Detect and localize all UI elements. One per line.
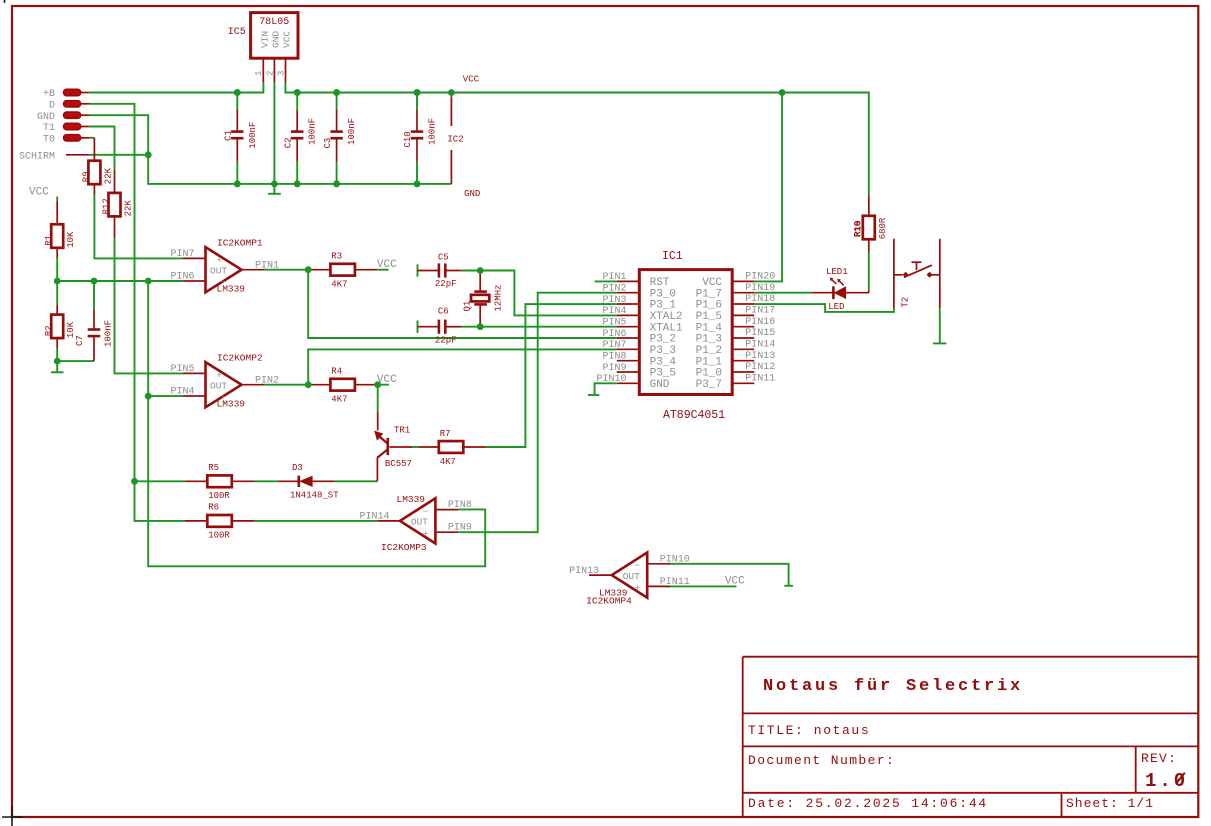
svg-text:PIN11: PIN11 xyxy=(660,577,690,588)
svg-text:PIN13: PIN13 xyxy=(569,566,599,577)
svg-text:P1_1: P1_1 xyxy=(696,356,723,368)
svg-text:XTAL1: XTAL1 xyxy=(650,322,683,334)
svg-text:PIN8: PIN8 xyxy=(448,500,472,511)
svg-text:R5: R5 xyxy=(208,463,219,473)
svg-text:D3: D3 xyxy=(292,463,303,473)
svg-text:PIN10: PIN10 xyxy=(596,374,626,385)
svg-text:4K7: 4K7 xyxy=(331,395,347,405)
svg-text:+: + xyxy=(423,529,428,539)
svg-text:Notaus für Selectrix: Notaus für Selectrix xyxy=(763,677,1023,696)
svg-text:R1: R1 xyxy=(44,235,54,246)
svg-text:LED1: LED1 xyxy=(826,267,848,277)
svg-text:PIN1: PIN1 xyxy=(602,272,626,283)
svg-text:PIN1: PIN1 xyxy=(255,260,279,271)
svg-text:−: − xyxy=(635,561,640,571)
svg-text:P3_7: P3_7 xyxy=(696,379,722,391)
svg-text:VCC: VCC xyxy=(377,259,397,271)
svg-text:C2: C2 xyxy=(283,137,293,148)
svg-text:PIN8: PIN8 xyxy=(602,352,626,363)
svg-text:VCC: VCC xyxy=(725,576,745,588)
svg-text:TITLE: notaus: TITLE: notaus xyxy=(748,723,870,738)
svg-text:P3_3: P3_3 xyxy=(650,345,676,357)
svg-text:RST: RST xyxy=(650,277,670,289)
svg-text:XTAL2: XTAL2 xyxy=(650,311,683,323)
svg-text:R12: R12 xyxy=(102,198,112,214)
svg-text:100nF: 100nF xyxy=(248,122,258,149)
svg-text:LM339: LM339 xyxy=(217,283,246,294)
svg-text:GND: GND xyxy=(37,112,55,123)
svg-text:VCC: VCC xyxy=(463,75,480,85)
svg-text:P3_1: P3_1 xyxy=(650,300,677,312)
svg-text:12MHz: 12MHz xyxy=(493,284,503,311)
svg-text:IC2KOMP4: IC2KOMP4 xyxy=(586,596,632,607)
svg-text:+B: +B xyxy=(43,89,55,100)
svg-text:AT89C4051: AT89C4051 xyxy=(663,409,725,422)
svg-text:100nF: 100nF xyxy=(308,118,318,145)
svg-text:PIN18: PIN18 xyxy=(745,294,775,305)
svg-text:SCHIRM: SCHIRM xyxy=(19,151,55,162)
svg-text:PIN14: PIN14 xyxy=(359,512,389,523)
svg-text:+: + xyxy=(635,584,640,594)
svg-text:LM339: LM339 xyxy=(217,398,246,409)
svg-text:PIN6: PIN6 xyxy=(602,329,626,340)
svg-text:IC5: IC5 xyxy=(228,27,246,38)
svg-text:100nF: 100nF xyxy=(428,118,438,145)
svg-text:PIN6: PIN6 xyxy=(170,272,194,283)
svg-text:R10: R10 xyxy=(853,220,863,236)
svg-text:P1_4: P1_4 xyxy=(696,322,723,334)
svg-text:P1_7: P1_7 xyxy=(696,288,722,300)
svg-text:C1: C1 xyxy=(224,130,234,141)
svg-text:10K: 10K xyxy=(66,321,76,338)
svg-text:P3_0: P3_0 xyxy=(650,288,676,300)
svg-text:BC557: BC557 xyxy=(385,459,412,469)
svg-text:GND: GND xyxy=(650,379,670,391)
svg-text:PIN19: PIN19 xyxy=(745,283,775,294)
svg-text:P1_6: P1_6 xyxy=(696,300,722,312)
svg-text:GND: GND xyxy=(271,31,282,48)
svg-text:IC2KOMP3: IC2KOMP3 xyxy=(381,542,427,553)
svg-text:100nF: 100nF xyxy=(347,118,357,145)
svg-text:T0: T0 xyxy=(43,134,55,145)
svg-text:PIN10: PIN10 xyxy=(660,554,690,565)
svg-text:TR1: TR1 xyxy=(394,426,410,436)
svg-text:IC2KOMP2: IC2KOMP2 xyxy=(217,353,263,364)
svg-text:PIN13: PIN13 xyxy=(745,351,775,362)
svg-text:VCC: VCC xyxy=(29,187,49,199)
svg-text:T2: T2 xyxy=(901,297,911,308)
svg-text:10K: 10K xyxy=(66,231,76,248)
svg-text:PIN15: PIN15 xyxy=(745,328,775,339)
svg-text:PIN11: PIN11 xyxy=(745,374,775,385)
svg-text:VCC: VCC xyxy=(702,277,722,289)
svg-text:100nF: 100nF xyxy=(104,320,114,347)
svg-text:R3: R3 xyxy=(331,252,342,262)
svg-text:P1_0: P1_0 xyxy=(696,368,722,380)
svg-text:C10: C10 xyxy=(403,131,413,147)
svg-text:1.0: 1.0 xyxy=(1145,770,1188,792)
svg-text:PIN17: PIN17 xyxy=(745,306,775,317)
svg-text:PIN4: PIN4 xyxy=(170,387,194,398)
svg-text:PIN5: PIN5 xyxy=(602,318,626,329)
svg-text:+: + xyxy=(217,256,222,266)
svg-text:OUT: OUT xyxy=(623,571,640,582)
svg-text:P1_3: P1_3 xyxy=(696,334,722,346)
svg-text:PIN3: PIN3 xyxy=(602,295,626,306)
svg-text:PIN12: PIN12 xyxy=(745,362,775,373)
svg-text:+: + xyxy=(217,371,222,381)
svg-text:Q1: Q1 xyxy=(462,301,472,312)
svg-text:C3: C3 xyxy=(323,138,333,149)
svg-text:C7: C7 xyxy=(75,335,85,346)
svg-text:Date: 25.02.2025 14:06:44: Date: 25.02.2025 14:06:44 xyxy=(748,796,988,811)
svg-text:R7: R7 xyxy=(440,429,451,439)
svg-text:R6: R6 xyxy=(208,503,219,513)
svg-text:P1_2: P1_2 xyxy=(696,345,722,357)
svg-text:Document Number:: Document Number: xyxy=(748,753,895,768)
svg-text:IC2: IC2 xyxy=(447,135,463,145)
svg-text:100R: 100R xyxy=(208,531,230,541)
svg-text:P3_5: P3_5 xyxy=(650,368,676,380)
svg-text:PIN9: PIN9 xyxy=(602,363,626,374)
svg-text:D: D xyxy=(49,100,55,111)
svg-text:PIN14: PIN14 xyxy=(745,340,775,351)
svg-text:P3_4: P3_4 xyxy=(650,356,677,368)
svg-text:IC1: IC1 xyxy=(662,250,683,263)
svg-text:PIN7: PIN7 xyxy=(170,249,194,260)
svg-text:P1_5: P1_5 xyxy=(696,311,722,323)
svg-text:R9: R9 xyxy=(81,171,91,182)
svg-text:78L05: 78L05 xyxy=(259,17,289,28)
svg-text:LM339: LM339 xyxy=(397,494,426,505)
svg-text:OUT: OUT xyxy=(411,517,428,528)
svg-text:VCC: VCC xyxy=(282,31,293,48)
svg-text:GND: GND xyxy=(464,189,480,199)
svg-text:R2: R2 xyxy=(44,325,54,336)
svg-text:PIN2: PIN2 xyxy=(255,375,279,386)
svg-text:C5: C5 xyxy=(438,252,449,262)
svg-text:PIN7: PIN7 xyxy=(602,340,626,351)
svg-text:22K: 22K xyxy=(103,167,113,184)
svg-text:IC2KOMP1: IC2KOMP1 xyxy=(217,238,263,249)
svg-text:REV:: REV: xyxy=(1141,751,1177,766)
svg-text:22K: 22K xyxy=(124,200,134,217)
svg-text:PIN5: PIN5 xyxy=(170,364,194,375)
svg-text:100R: 100R xyxy=(208,491,230,501)
svg-text:P3_2: P3_2 xyxy=(650,334,676,346)
svg-text:LED: LED xyxy=(828,302,844,312)
svg-text:1N4148_ST: 1N4148_ST xyxy=(290,491,339,501)
svg-text:4K7: 4K7 xyxy=(440,457,456,467)
svg-text:−: − xyxy=(423,507,428,517)
svg-text:4K7: 4K7 xyxy=(331,280,347,290)
svg-text:PIN2: PIN2 xyxy=(602,284,626,295)
svg-text:22pF: 22pF xyxy=(435,336,457,346)
svg-text:22pF: 22pF xyxy=(435,279,457,289)
svg-text:OUT: OUT xyxy=(210,381,227,392)
svg-text:680R: 680R xyxy=(878,217,888,239)
svg-text:C6: C6 xyxy=(438,307,449,317)
svg-text:PIN20: PIN20 xyxy=(745,272,775,283)
svg-text:PIN16: PIN16 xyxy=(745,317,775,328)
svg-text:VIN: VIN xyxy=(260,31,271,48)
svg-text:PIN4: PIN4 xyxy=(602,306,626,317)
svg-text:T1: T1 xyxy=(43,123,55,134)
svg-text:R4: R4 xyxy=(331,367,342,377)
svg-text:Sheet: 1/1: Sheet: 1/1 xyxy=(1066,796,1154,811)
svg-text:PIN9: PIN9 xyxy=(448,523,472,534)
svg-text:OUT: OUT xyxy=(210,266,227,277)
